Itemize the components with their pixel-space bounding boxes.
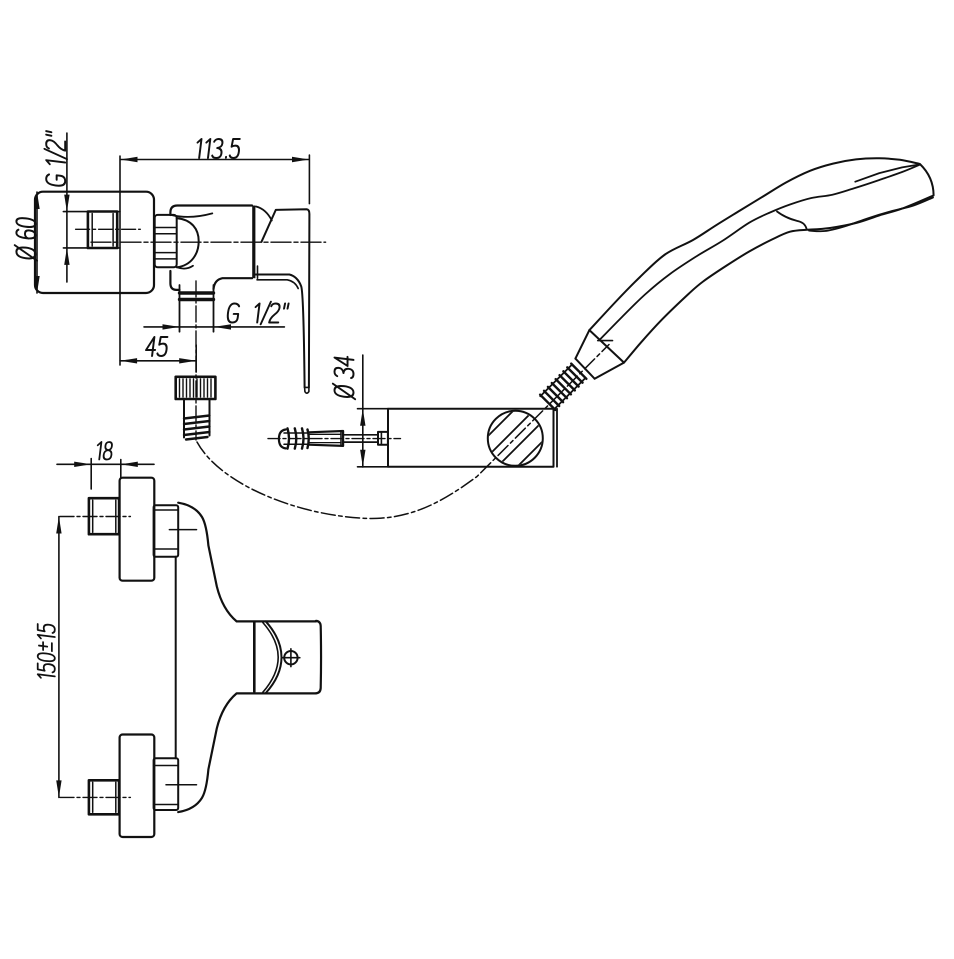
front view: body [176,503,316,812]
dimension 113.5 top [120,139,309,365]
front view: top hex nut [154,505,179,557]
grip end tick [598,340,613,342]
side view: outlet centerline [195,281,197,440]
side view: handle lever [256,209,310,393]
wall plug (dowel) [268,428,401,448]
front view: bottom inlet centerline [60,796,130,798]
front view: cap screw symbol [282,649,300,667]
side view: outlet stub [180,285,214,332]
hose centerline curve [197,345,609,519]
front view: bottom hex nut [154,758,179,810]
dimension G 1/2 outlet [144,302,289,330]
front view: top inlet centerline [60,516,130,518]
dimension G 1/2 inlet vertical [44,131,119,282]
front view: bottom nut centerline stub [166,784,197,786]
front view: cartridge neck line [253,622,256,691]
side view: cartridge dome cap [171,213,212,268]
hand shower grip inner line [600,165,920,340]
front view: bottom inlet thread square [89,780,119,814]
wall bracket for hand shower [388,405,559,485]
dimension Ø60 [15,192,40,293]
hand shower head face lines [777,165,933,232]
side view: inlet centerline [76,228,141,230]
dimension 45 [120,337,196,372]
front view: bottom flange [120,735,155,838]
front view: top nut centerline stub [169,529,196,531]
side view: wall flange [35,192,154,293]
side view: body/handle joint thick line [252,206,255,279]
knurled hose screw fitting [176,377,216,440]
side view: hex nut [155,215,177,267]
front view: top inlet thread square [89,498,119,534]
front view: cap [263,621,321,693]
dimension 150±15 [38,517,62,798]
side view: body centerline [91,241,326,243]
side view: inlet thread square [88,212,117,249]
side view: mixer body [170,206,252,290]
dimension 18 [57,442,154,489]
front view: top flange [120,478,155,581]
dimension Ø34 [333,355,388,467]
hand shower handle and head outline [589,158,933,362]
hand shower ribbed hose nipple [540,364,586,410]
hand shower cone connector [575,330,624,379]
